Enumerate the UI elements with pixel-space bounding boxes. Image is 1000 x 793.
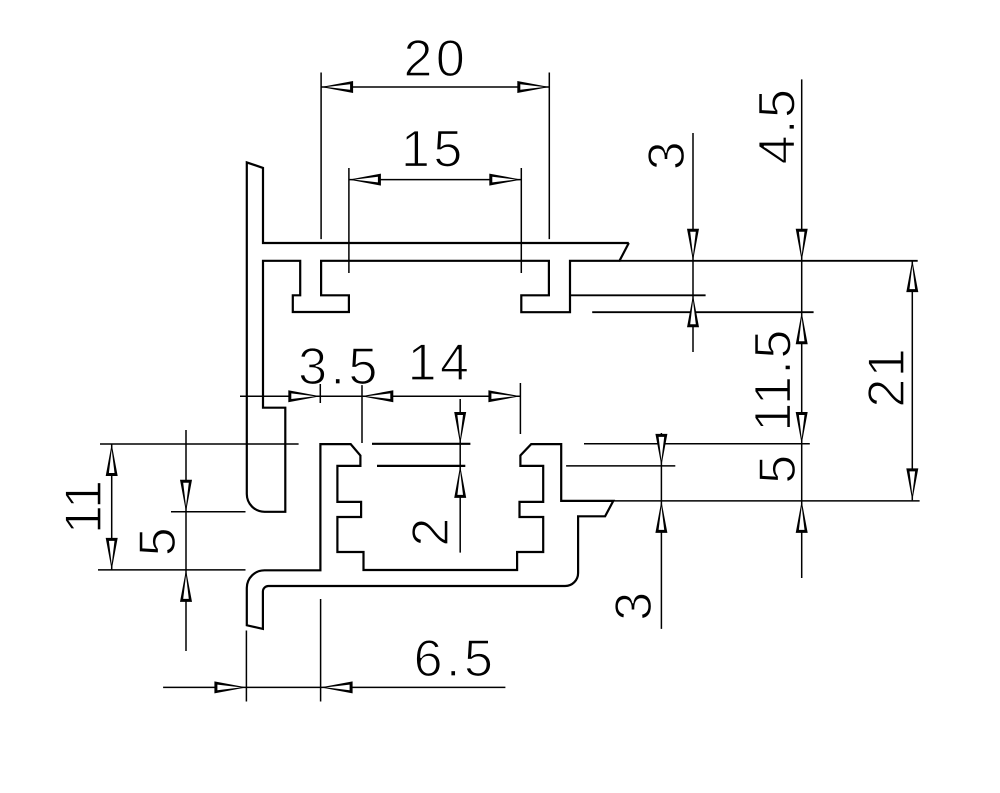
svg-text:4.5: 4.5: [748, 88, 806, 165]
svg-text:15: 15: [401, 121, 466, 179]
svg-text:14: 14: [408, 334, 473, 392]
svg-text:11: 11: [55, 480, 113, 534]
svg-text:11.5: 11.5: [745, 328, 803, 431]
svg-text:2: 2: [402, 516, 460, 546]
svg-text:6.5: 6.5: [414, 630, 497, 688]
svg-text:3: 3: [638, 140, 696, 170]
svg-text:3.5: 3.5: [298, 338, 381, 396]
svg-text:21: 21: [858, 347, 916, 408]
svg-text:5: 5: [749, 453, 807, 483]
svg-text:5: 5: [129, 526, 187, 556]
svg-text:20: 20: [403, 30, 468, 88]
svg-text:3: 3: [605, 590, 663, 620]
